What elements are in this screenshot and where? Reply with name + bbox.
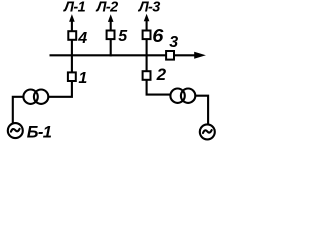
breaker Q4 square — [68, 31, 76, 40]
arrow feeder Л-3 — [144, 14, 150, 22]
svg-text:3: 3 — [169, 34, 178, 51]
breaker Q6 square — [143, 31, 151, 40]
breaker Q1 square — [68, 72, 76, 81]
svg-text:4: 4 — [77, 30, 87, 47]
wire feeder line Л-1 / generator branch left vertical — [49, 18, 72, 97]
wire feeder line Л-3 / generator branch right vertical — [147, 18, 171, 95]
arrow feeder Л-2 — [108, 14, 114, 22]
generator G1 circle — [8, 123, 23, 138]
generator G1 tilde — [11, 129, 20, 132]
breaker Q2 square — [143, 71, 151, 80]
svg-text:Л-1: Л-1 — [63, 0, 86, 16]
breaker Q3 square — [166, 51, 174, 60]
wire left generator to transformer — [13, 97, 23, 124]
svg-text:Л-2: Л-2 — [96, 0, 119, 16]
svg-text:Л-3: Л-3 — [138, 0, 161, 16]
transformer T2 winding 1 — [170, 89, 184, 103]
generator G2 tilde — [203, 130, 212, 133]
arrow feeder Л-1 — [69, 14, 75, 22]
transformer T1 winding 1 — [23, 90, 37, 104]
transformer T1 winding 2 — [34, 90, 48, 104]
wire feeder line Л-2 vertical — [110, 18, 112, 56]
arrow bus right feeder — [194, 52, 206, 59]
svg-text:1: 1 — [78, 70, 87, 87]
svg-text:2: 2 — [156, 65, 167, 84]
transformer T2 winding 2 — [181, 89, 195, 103]
breaker Q5 square — [107, 31, 115, 40]
wire right transformer to generator — [196, 96, 208, 125]
wire bus — [50, 54, 196, 56]
svg-text:5: 5 — [118, 28, 128, 45]
svg-text:6: 6 — [152, 25, 163, 46]
svg-text:Б-1: Б-1 — [27, 123, 52, 141]
generator G2 circle — [200, 124, 215, 139]
